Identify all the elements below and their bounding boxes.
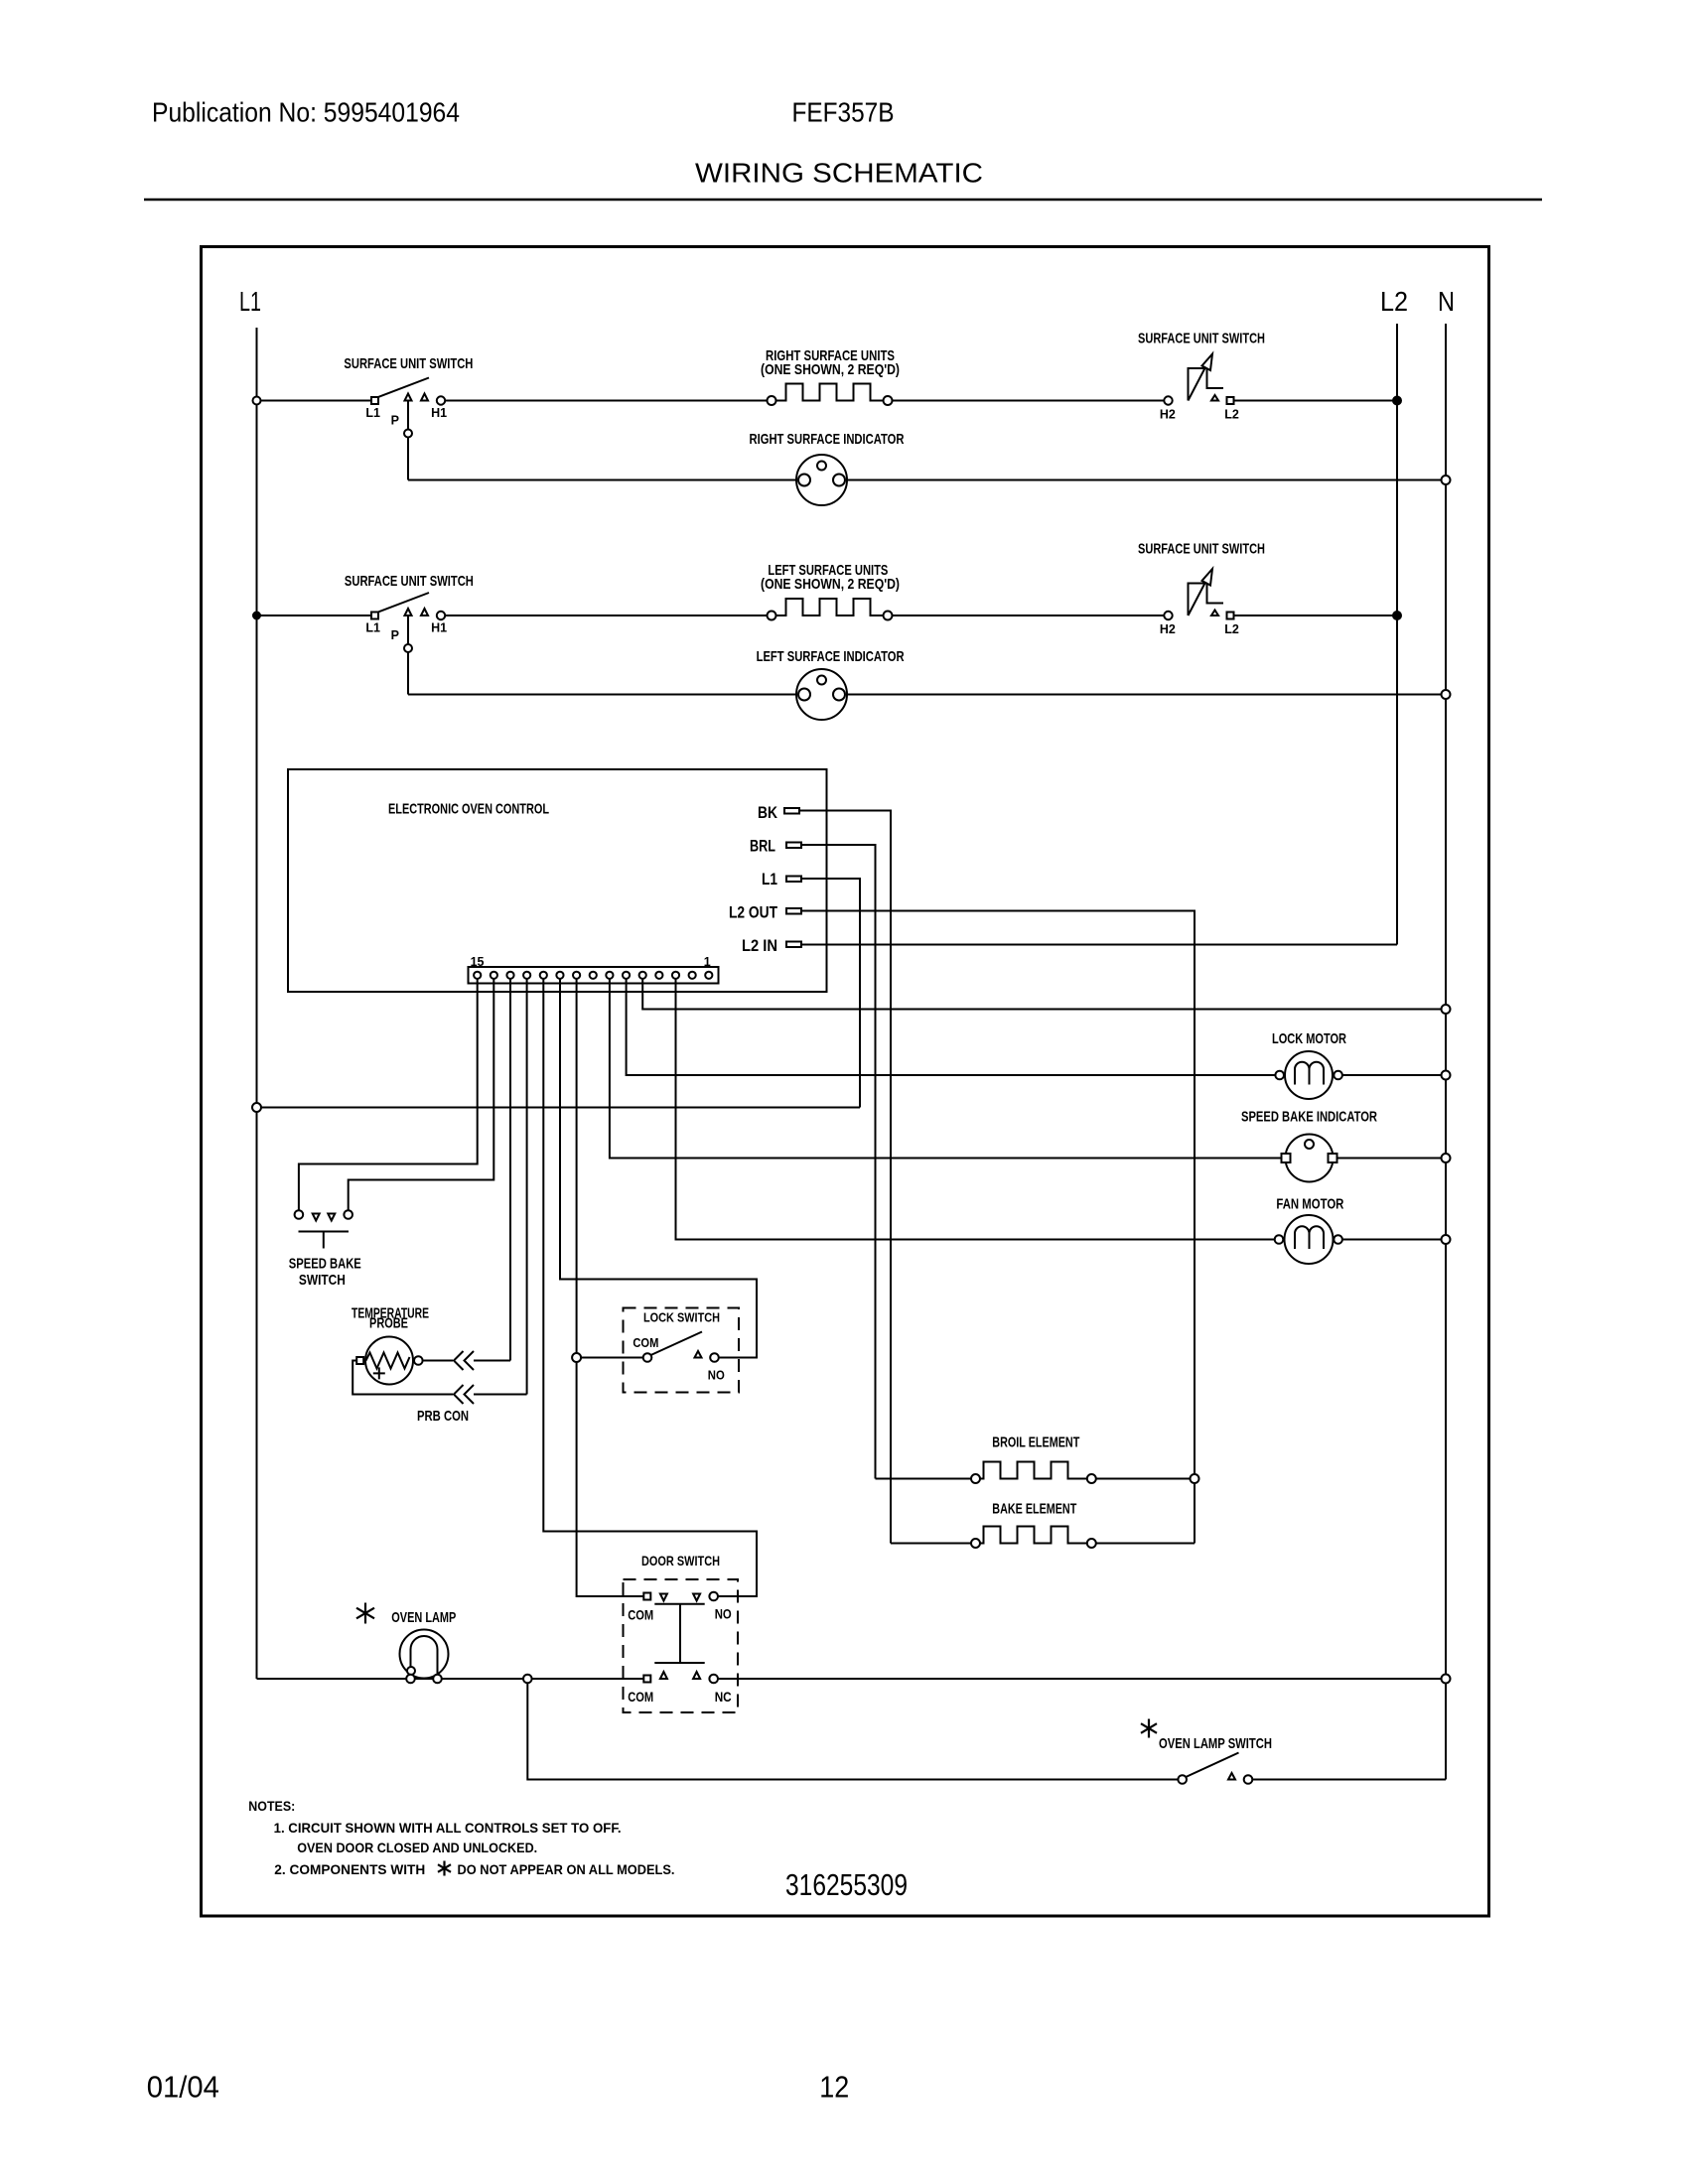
svg-text:LOCK MOTOR: LOCK MOTOR <box>1272 1030 1346 1047</box>
indicator lamp right surface <box>796 455 847 505</box>
svg-text:COM: COM <box>628 1607 653 1623</box>
svg-text:BROIL ELEMENT: BROIL ELEMENT <box>992 1434 1079 1451</box>
junction broil/L2out <box>1191 1474 1199 1483</box>
svg-text:L2: L2 <box>1224 622 1239 636</box>
svg-text:BK: BK <box>758 803 778 822</box>
svg-text:L2 OUT: L2 OUT <box>729 903 777 922</box>
svg-text:NO: NO <box>708 1368 725 1383</box>
header rule <box>144 199 1542 202</box>
svg-text:L2: L2 <box>1224 408 1239 422</box>
wire row1 middle <box>445 400 772 402</box>
wire row2 right <box>893 614 1165 616</box>
svg-text:(ONE SHOWN, 2 REQ'D): (ONE SHOWN, 2 REQ'D) <box>761 361 900 378</box>
wire lock com <box>577 1357 643 1359</box>
svg-text:FAN MOTOR: FAN MOTOR <box>1276 1196 1343 1213</box>
wire pin5 net <box>642 978 1446 1010</box>
resistor right surface unit <box>776 384 884 401</box>
oven lamp switch SW7 <box>1178 1775 1187 1784</box>
svg-text:SURFACE UNIT SWITCH: SURFACE UNIT SWITCH <box>1138 541 1265 558</box>
svg-text:SPEED BAKE INDICATOR: SPEED BAKE INDICATOR <box>1241 1109 1377 1126</box>
wire probe left loop <box>352 1361 453 1395</box>
svg-text:H1: H1 <box>431 406 447 420</box>
resistor broil element <box>980 1462 1087 1479</box>
svg-text:BAKE ELEMENT: BAKE ELEMENT <box>992 1501 1076 1518</box>
asterisk oven lamp <box>356 1603 374 1624</box>
junction NC/N <box>1442 1675 1451 1684</box>
svg-text:OVEN LAMP: OVEN LAMP <box>391 1609 456 1626</box>
wire lock motor to N <box>1342 1074 1446 1076</box>
svg-text:NOTES:: NOTES: <box>248 1798 295 1814</box>
svg-text:12: 12 <box>819 2070 849 2105</box>
junction row2/L2 <box>1393 612 1401 619</box>
junction indicator1/N <box>1442 476 1451 484</box>
asterisk note <box>438 1861 451 1876</box>
surface unit switch SW2 right <box>1164 396 1172 404</box>
wire indicator row1 <box>408 479 1446 481</box>
wire row1 right <box>893 400 1165 402</box>
wire pin3 net <box>676 978 1275 1240</box>
wire L2 rail <box>1396 324 1398 945</box>
svg-text:316255309: 316255309 <box>785 1867 908 1902</box>
svg-text:1: 1 <box>704 955 711 969</box>
svg-text:L1: L1 <box>239 286 261 317</box>
temperature probe RT1 <box>365 1337 413 1385</box>
asterisk oven lamp switch <box>1141 1719 1157 1738</box>
svg-text:SPEED BAKE: SPEED BAKE <box>289 1256 361 1273</box>
wire probe right to pin13 <box>474 1360 510 1362</box>
wire lamp row <box>257 1678 644 1680</box>
door switch box <box>624 1579 739 1712</box>
strip pin circles <box>474 972 712 979</box>
wire L2 IN net <box>801 944 1397 946</box>
junction lock motor/N <box>1442 1071 1451 1080</box>
wire prb con to pin12 <box>474 1394 527 1396</box>
svg-text:L1: L1 <box>365 406 380 420</box>
svg-text:Publication No: 5995401964: Publication No: 5995401964 <box>152 97 460 128</box>
electronic oven control box U1 <box>288 769 827 992</box>
wire pin13 net <box>509 978 511 1361</box>
resistor bake element <box>980 1527 1087 1544</box>
svg-text:BRL: BRL <box>750 837 775 856</box>
surface unit switch SW4 right <box>1164 612 1172 619</box>
wire pin12 net <box>526 978 528 1395</box>
svg-text:NC: NC <box>715 1689 732 1705</box>
svg-text:P: P <box>391 628 399 642</box>
svg-text:15: 15 <box>471 955 485 969</box>
wire BK net <box>799 811 891 1544</box>
lock switch box <box>624 1308 740 1393</box>
svg-text:SURFACE UNIT SWITCH: SURFACE UNIT SWITCH <box>1138 331 1265 347</box>
junction fan motor/N <box>1442 1235 1451 1244</box>
wire P drop row1 <box>407 401 409 480</box>
terminal strip P1 <box>469 967 719 984</box>
lock switch SW6 <box>643 1353 652 1362</box>
svg-text:NO: NO <box>715 1606 732 1622</box>
svg-text:SWITCH: SWITCH <box>299 1272 346 1289</box>
svg-text:PROBE: PROBE <box>369 1315 408 1332</box>
speed bake switch SW5 <box>295 1210 304 1219</box>
speed bake indicator lamp <box>1286 1135 1334 1182</box>
wire row2 middle <box>445 614 772 616</box>
wire row2 left <box>257 614 372 616</box>
svg-text:LOCK SWITCH: LOCK SWITCH <box>643 1310 720 1325</box>
wire row2 to L2 rail <box>1234 614 1397 616</box>
wire broil right <box>1096 1478 1195 1480</box>
junction row1/L2 <box>1393 397 1401 405</box>
wire pin10 net <box>560 978 757 1358</box>
wire pin7 net <box>610 978 1282 1159</box>
wire bake right <box>1096 1543 1195 1545</box>
svg-text:(ONE SHOWN, 2 REQ'D): (ONE SHOWN, 2 REQ'D) <box>761 576 900 593</box>
svg-text:N: N <box>1438 286 1455 317</box>
junction lamp row <box>523 1675 532 1684</box>
svg-text:OVEN DOOR CLOSED AND UNLOCKED.: OVEN DOOR CLOSED AND UNLOCKED. <box>297 1840 537 1855</box>
svg-text:L1: L1 <box>365 621 380 635</box>
wire door NC to N <box>718 1678 1446 1680</box>
svg-text:L2 IN: L2 IN <box>742 936 777 955</box>
svg-text:H2: H2 <box>1160 622 1176 636</box>
lock motor M1 <box>1285 1051 1333 1099</box>
schematic border frame <box>202 247 1489 1917</box>
fan motor M2 <box>1285 1215 1334 1264</box>
junction row1/L1 <box>253 397 261 405</box>
wire L1 net <box>801 879 860 1108</box>
wire lamp junction drop <box>527 1679 1178 1780</box>
wire L2 OUT net <box>801 911 1195 1544</box>
wire pin11 net <box>543 978 757 1596</box>
svg-text:01/04: 01/04 <box>147 2070 219 2105</box>
wire fan motor to N <box>1342 1239 1446 1241</box>
surface unit switch SW1 left <box>371 397 378 404</box>
svg-text:SURFACE UNIT SWITCH: SURFACE UNIT SWITCH <box>344 355 473 372</box>
svg-text:ELECTRONIC OVEN CONTROL: ELECTRONIC OVEN CONTROL <box>388 801 549 818</box>
connector chevrons probe <box>454 1351 464 1370</box>
door switch lower pole <box>643 1676 650 1683</box>
svg-text:RIGHT SURFACE INDICATOR: RIGHT SURFACE INDICATOR <box>750 431 905 448</box>
oven lamp DS1 <box>400 1630 449 1679</box>
wire P drop row2 <box>407 615 409 695</box>
door switch actuator bar <box>654 1603 704 1605</box>
svg-text:OVEN LAMP SWITCH: OVEN LAMP SWITCH <box>1159 1735 1272 1752</box>
junction pin5/N <box>1442 1005 1451 1014</box>
wire pin15 net <box>299 978 478 1211</box>
svg-text:1. CIRCUIT SHOWN WITH ALL CON: 1. CIRCUIT SHOWN WITH ALL CONTROLS SET T… <box>274 1820 622 1836</box>
junction pin9/lock com <box>572 1353 581 1362</box>
svg-text:L2: L2 <box>1380 286 1408 317</box>
svg-text:LEFT SURFACE INDICATOR: LEFT SURFACE INDICATOR <box>757 648 905 665</box>
connector chevrons prb con <box>454 1385 464 1404</box>
svg-text:L1: L1 <box>762 870 777 888</box>
surface unit switch SW3 left <box>371 613 378 619</box>
wire bake row <box>891 1543 971 1545</box>
svg-text:FEF357B: FEF357B <box>792 97 895 128</box>
wire probe right <box>423 1360 453 1362</box>
wire pin6 net <box>627 978 1276 1075</box>
wire pin9 net <box>577 978 643 1596</box>
wire speed bake indicator to N <box>1337 1158 1447 1160</box>
junction row2/L1 <box>253 613 260 619</box>
wire indicator row2 <box>408 694 1446 696</box>
wire L1 rail <box>256 328 258 1679</box>
indicator lamp left surface <box>796 669 847 720</box>
junction indicator2/N <box>1442 690 1451 699</box>
svg-text:COM: COM <box>633 1335 658 1350</box>
svg-text:P: P <box>391 414 399 428</box>
svg-text:COM: COM <box>628 1689 653 1705</box>
wire BRL net <box>801 845 876 1479</box>
wire pin14 net <box>349 978 494 1211</box>
wire row1 left <box>257 400 372 402</box>
resistor left surface unit <box>776 599 884 615</box>
svg-text:SURFACE UNIT SWITCH: SURFACE UNIT SWITCH <box>345 573 474 590</box>
door switch upper pole <box>643 1593 650 1600</box>
wire row1 to L2 rail <box>1234 400 1397 402</box>
svg-text:2. COMPONENTS WITH: 2. COMPONENTS WITH <box>274 1861 425 1877</box>
svg-text:DO NOT APPEAR ON ALL MODELS.: DO NOT APPEAR ON ALL MODELS. <box>458 1861 675 1877</box>
junction sb indicator/N <box>1442 1154 1451 1162</box>
svg-text:DOOR SWITCH: DOOR SWITCH <box>641 1553 720 1569</box>
wire L1 horizontal <box>257 1107 861 1109</box>
wire lamp switch to N <box>1252 1779 1446 1781</box>
wire broil row <box>876 1478 972 1480</box>
svg-text:H1: H1 <box>431 621 447 635</box>
svg-text:PRB CON: PRB CON <box>417 1408 469 1425</box>
junction L1 rail open <box>252 1103 261 1112</box>
svg-text:WIRING SCHEMATIC: WIRING SCHEMATIC <box>695 158 983 189</box>
svg-text:H2: H2 <box>1160 408 1176 422</box>
wire N rail <box>1445 324 1447 1780</box>
